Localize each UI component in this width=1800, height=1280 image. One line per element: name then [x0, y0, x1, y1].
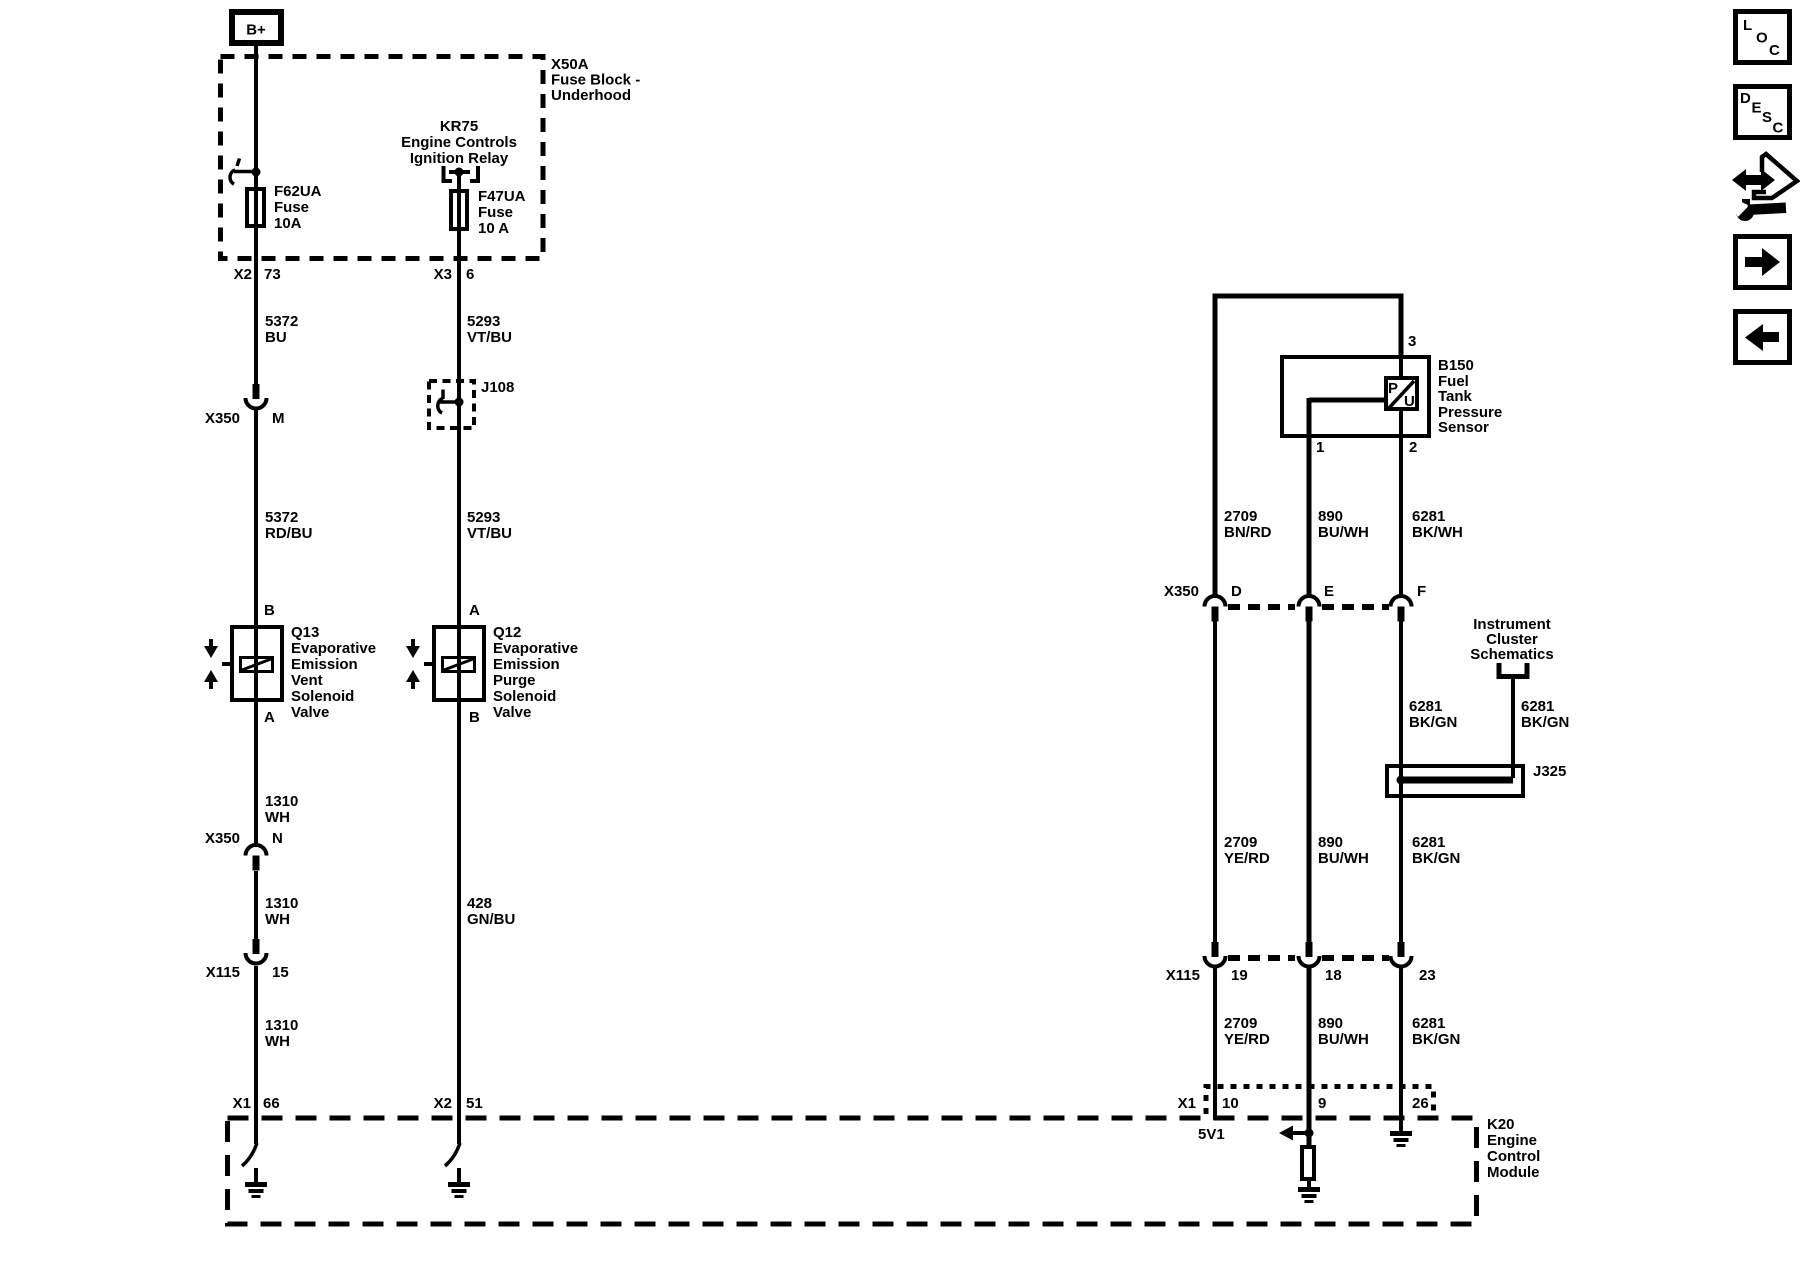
svg-text:Valve: Valve [493, 704, 531, 721]
svg-text:18: 18 [1325, 967, 1342, 984]
svg-text:C: C [1769, 42, 1780, 59]
svg-text:D: D [1231, 583, 1242, 600]
svg-text:YE/RD: YE/RD [1224, 1031, 1270, 1048]
svg-text:26: 26 [1412, 1095, 1429, 1112]
svg-text:51: 51 [466, 1095, 483, 1112]
svg-text:1310: 1310 [265, 793, 298, 810]
svg-text:RD/BU: RD/BU [265, 525, 313, 542]
svg-text:X115: X115 [1166, 967, 1200, 984]
svg-text:E: E [1324, 583, 1334, 600]
svg-text:X350: X350 [205, 410, 240, 427]
svg-text:X2: X2 [234, 266, 252, 283]
svg-text:19: 19 [1231, 967, 1248, 984]
svg-text:Underhood: Underhood [551, 87, 631, 104]
svg-text:890: 890 [1318, 834, 1343, 851]
svg-text:Schematics: Schematics [1470, 646, 1553, 663]
svg-text:Ignition Relay: Ignition Relay [410, 150, 509, 167]
svg-text:BU/WH: BU/WH [1318, 1031, 1369, 1048]
svg-text:6281: 6281 [1412, 834, 1445, 851]
svg-text:U: U [1404, 393, 1415, 410]
svg-text:Engine: Engine [1487, 1132, 1537, 1149]
svg-text:5372: 5372 [265, 313, 298, 330]
svg-text:Fuse: Fuse [478, 204, 513, 221]
svg-text:Tank: Tank [1438, 388, 1473, 405]
svg-text:Sensor: Sensor [1438, 419, 1489, 436]
svg-text:428: 428 [467, 895, 492, 912]
svg-text:B: B [264, 602, 275, 619]
svg-text:YE/RD: YE/RD [1224, 850, 1270, 867]
svg-text:2: 2 [1409, 439, 1417, 456]
svg-text:BK/GN: BK/GN [1412, 850, 1460, 867]
svg-text:10: 10 [1222, 1095, 1239, 1112]
svg-text:Purge: Purge [493, 672, 536, 689]
svg-text:M: M [272, 410, 285, 427]
svg-text:Module: Module [1487, 1164, 1540, 1181]
svg-text:66: 66 [263, 1095, 280, 1112]
svg-text:5372: 5372 [265, 509, 298, 526]
svg-text:J108: J108 [481, 379, 514, 396]
svg-text:J325: J325 [1533, 763, 1566, 780]
svg-text:VT/BU: VT/BU [467, 329, 512, 346]
svg-text:F47UA: F47UA [478, 188, 526, 205]
svg-text:BU/WH: BU/WH [1318, 850, 1369, 867]
svg-text:6281: 6281 [1409, 698, 1442, 715]
svg-text:6: 6 [466, 266, 474, 283]
svg-text:A: A [469, 602, 480, 619]
svg-text:L: L [1743, 17, 1752, 34]
svg-text:B+: B+ [246, 22, 266, 39]
svg-text:Evaporative: Evaporative [291, 640, 376, 657]
svg-text:15: 15 [272, 964, 289, 981]
svg-text:10A: 10A [274, 215, 302, 232]
svg-text:Q12: Q12 [493, 624, 521, 641]
svg-text:X50A: X50A [551, 56, 589, 73]
svg-text:1310: 1310 [265, 895, 298, 912]
svg-text:23: 23 [1419, 967, 1436, 984]
svg-text:X350: X350 [205, 830, 240, 847]
svg-text:890: 890 [1318, 508, 1343, 525]
svg-text:WH: WH [265, 809, 290, 826]
svg-text:X350: X350 [1164, 583, 1199, 600]
svg-text:Evaporative: Evaporative [493, 640, 578, 657]
svg-text:X1: X1 [1178, 1095, 1196, 1112]
svg-text:K20: K20 [1487, 1116, 1515, 1133]
svg-text:P: P [1388, 380, 1398, 397]
svg-text:Solenoid: Solenoid [493, 688, 556, 705]
svg-text:Fuse Block -: Fuse Block - [551, 72, 640, 89]
svg-text:BU/WH: BU/WH [1318, 524, 1369, 541]
svg-text:2709: 2709 [1224, 834, 1257, 851]
svg-text:B: B [469, 709, 480, 726]
svg-text:Valve: Valve [291, 704, 329, 721]
svg-text:Q13: Q13 [291, 624, 319, 641]
svg-text:X3: X3 [434, 266, 452, 283]
svg-text:GN/BU: GN/BU [467, 911, 515, 928]
svg-text:S: S [1762, 109, 1772, 126]
svg-text:N: N [272, 830, 283, 847]
svg-text:B150: B150 [1438, 357, 1474, 374]
svg-text:5293: 5293 [467, 509, 500, 526]
svg-text:73: 73 [264, 266, 281, 283]
svg-text:Vent: Vent [291, 672, 323, 689]
svg-text:X2: X2 [434, 1095, 452, 1112]
svg-text:6281: 6281 [1521, 698, 1554, 715]
svg-text:O: O [1756, 30, 1768, 47]
svg-text:9: 9 [1318, 1095, 1326, 1112]
svg-text:X115: X115 [206, 964, 240, 981]
svg-text:5V1: 5V1 [1198, 1126, 1225, 1143]
svg-text:Fuse: Fuse [274, 199, 309, 216]
svg-text:WH: WH [265, 911, 290, 928]
svg-text:Control: Control [1487, 1148, 1540, 1165]
svg-text:Emission: Emission [493, 656, 560, 673]
svg-text:D: D [1740, 90, 1751, 107]
svg-text:6281: 6281 [1412, 508, 1445, 525]
svg-text:BK/GN: BK/GN [1409, 714, 1457, 731]
svg-text:1: 1 [1316, 439, 1324, 456]
svg-text:BK/GN: BK/GN [1521, 714, 1569, 731]
svg-text:BK/GN: BK/GN [1412, 1031, 1460, 1048]
svg-text:2709: 2709 [1224, 508, 1257, 525]
svg-text:WH: WH [265, 1033, 290, 1050]
svg-text:BN/RD: BN/RD [1224, 524, 1272, 541]
svg-text:KR75: KR75 [440, 118, 478, 135]
svg-text:F: F [1417, 583, 1426, 600]
svg-text:Solenoid: Solenoid [291, 688, 354, 705]
svg-text:F62UA: F62UA [274, 183, 322, 200]
svg-text:1310: 1310 [265, 1017, 298, 1034]
svg-text:5293: 5293 [467, 313, 500, 330]
svg-text:E: E [1752, 100, 1762, 117]
svg-text:Engine Controls: Engine Controls [401, 134, 517, 151]
svg-text:C: C [1773, 120, 1784, 137]
svg-text:X1: X1 [233, 1095, 251, 1112]
svg-text:3: 3 [1408, 333, 1416, 350]
svg-text:6281: 6281 [1412, 1015, 1445, 1032]
svg-text:BU: BU [265, 329, 287, 346]
svg-text:A: A [264, 709, 275, 726]
svg-text:890: 890 [1318, 1015, 1343, 1032]
svg-text:Emission: Emission [291, 656, 358, 673]
svg-text:2709: 2709 [1224, 1015, 1257, 1032]
svg-text:10 A: 10 A [478, 220, 509, 237]
svg-text:VT/BU: VT/BU [467, 525, 512, 542]
svg-text:BK/WH: BK/WH [1412, 524, 1463, 541]
